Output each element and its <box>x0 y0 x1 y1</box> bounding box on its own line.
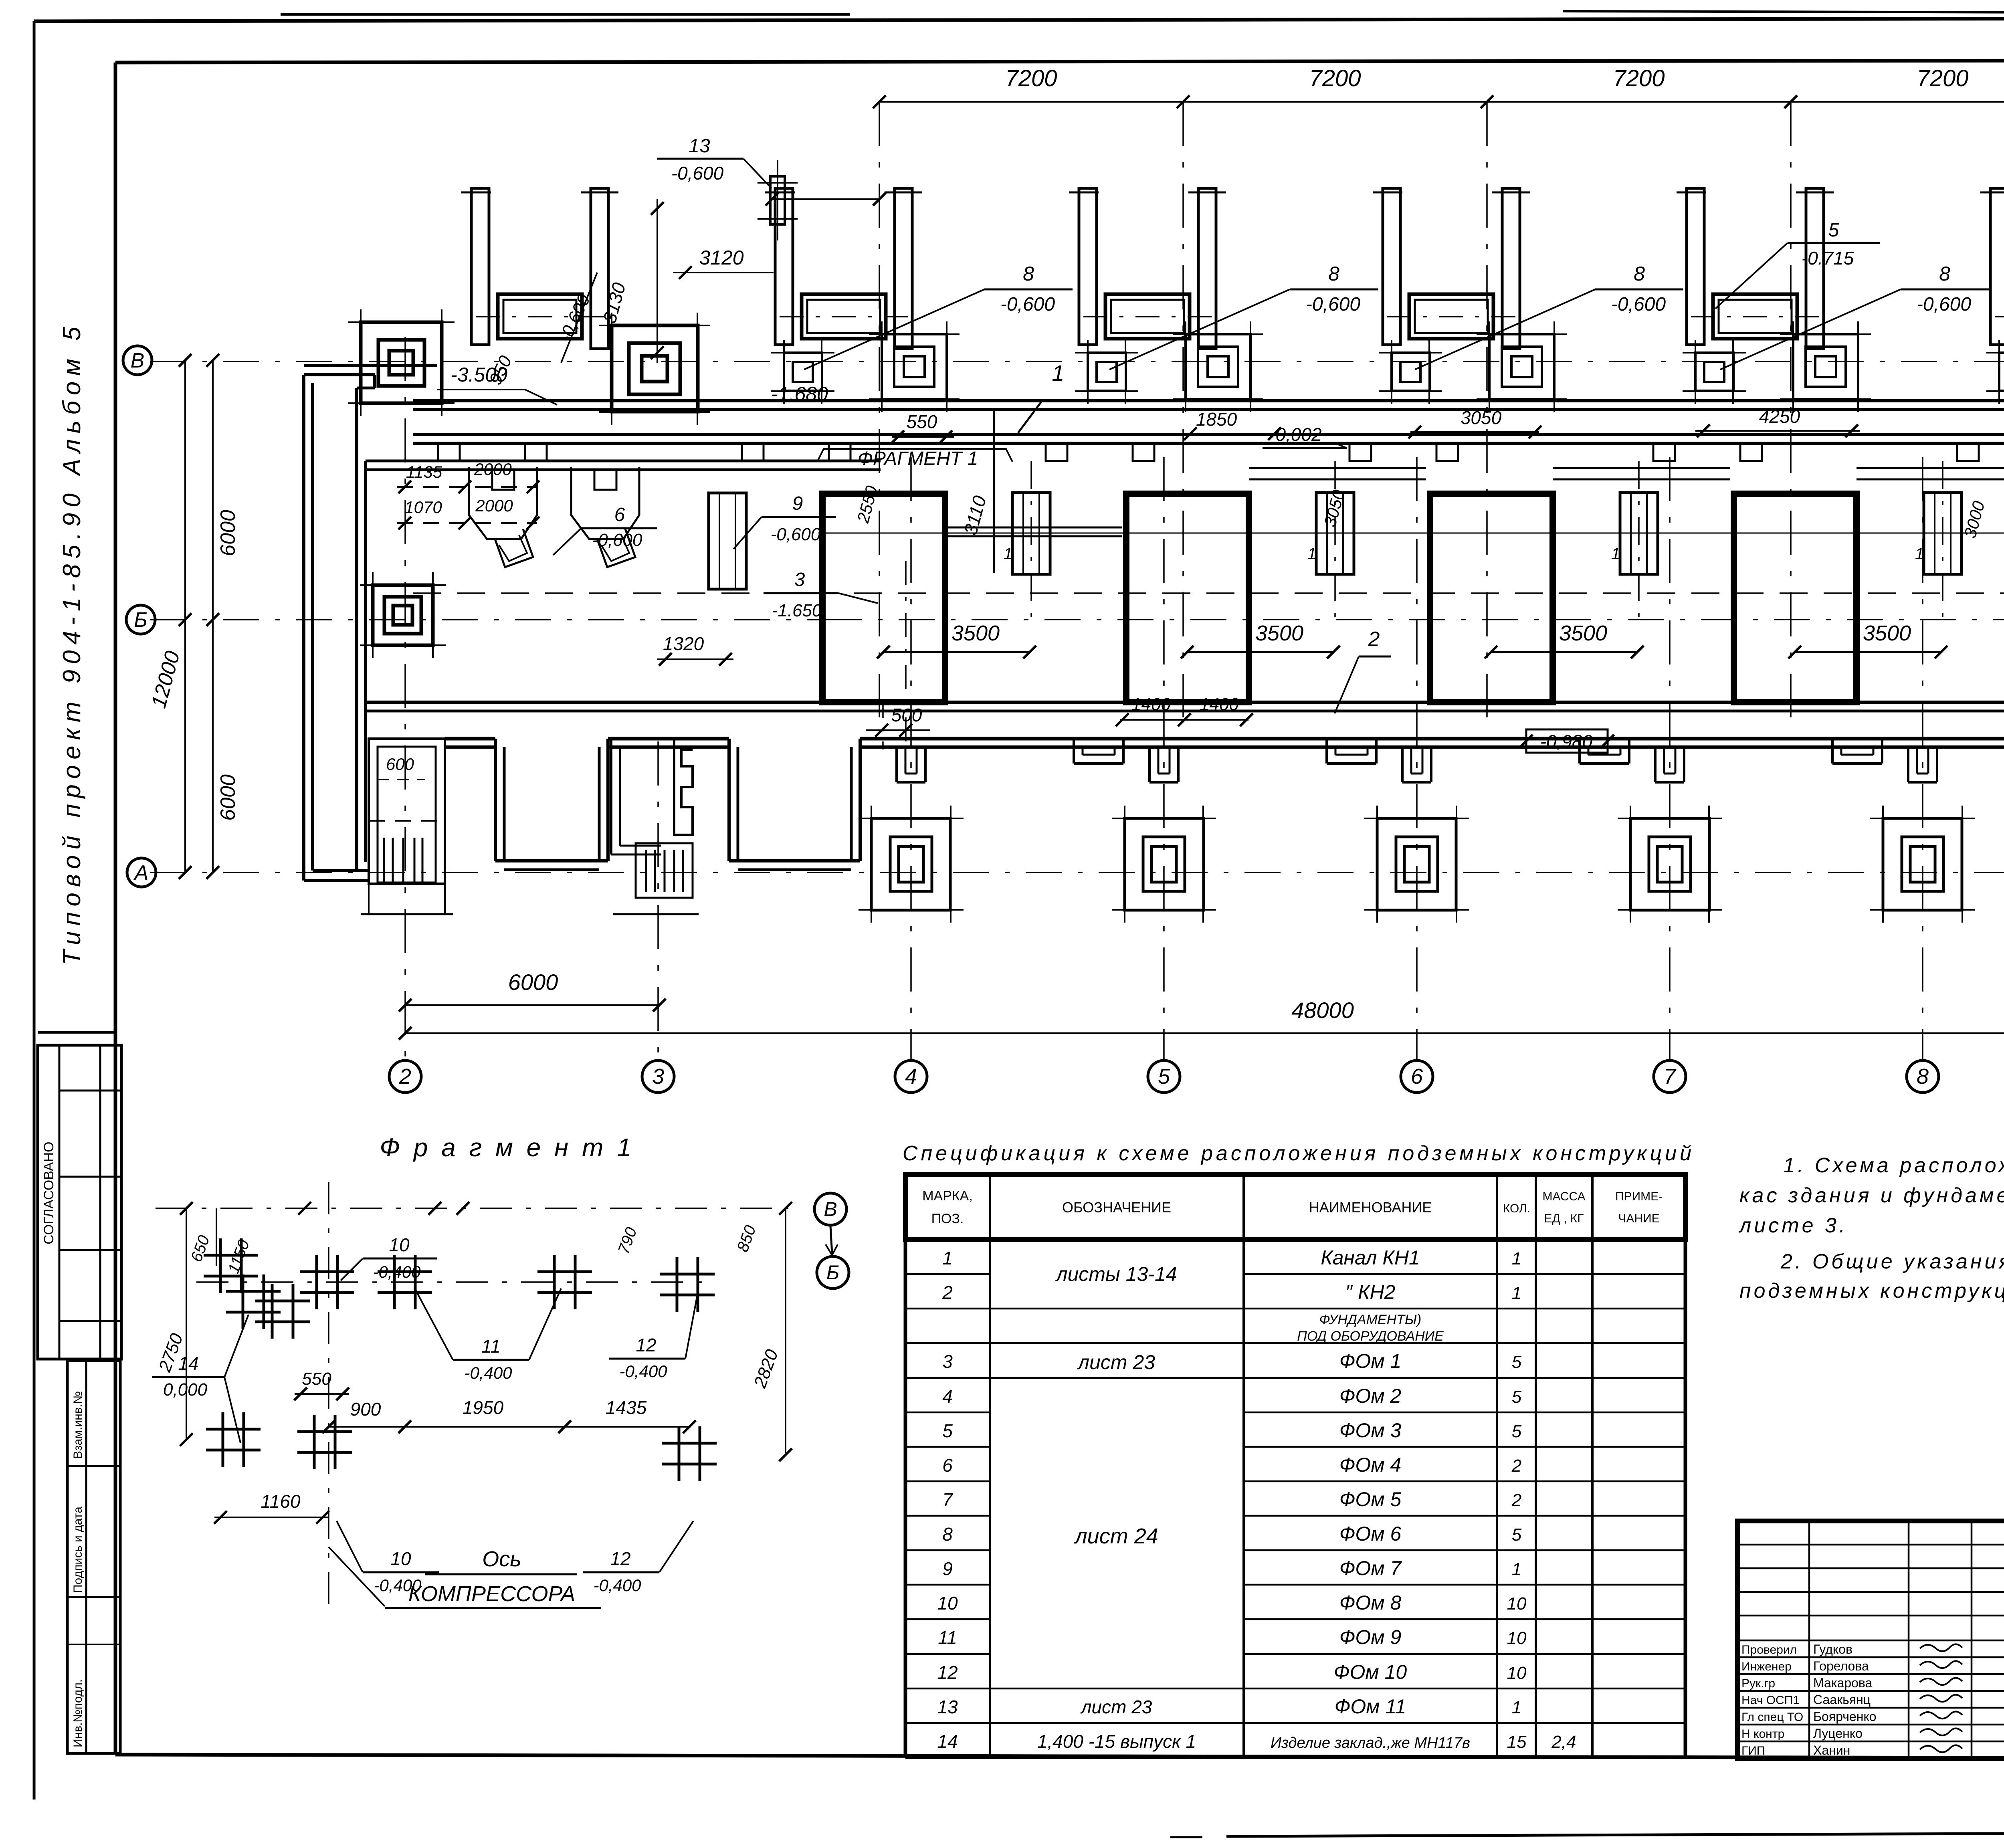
svg-text:ОБОЗНАЧЕНИЕ: ОБОЗНАЧЕНИЕ <box>1062 1199 1171 1216</box>
svg-text:900: 900 <box>350 1399 381 1420</box>
signature table <box>1737 1521 2004 1759</box>
left margin vertical title <box>58 321 86 965</box>
small foundation 13 <box>758 160 798 240</box>
small footing 2003 <box>771 340 834 404</box>
svg-text:7200: 7200 <box>1917 65 1968 91</box>
svg-text:КОЛ.: КОЛ. <box>1503 1202 1530 1215</box>
comb top edge <box>445 739 2004 747</box>
svg-text:-0,400: -0,400 <box>464 1363 512 1382</box>
svg-text:48000: 48000 <box>1291 998 1354 1023</box>
svg-text:3120: 3120 <box>699 246 743 269</box>
hexagonal pits 6 <box>469 467 639 567</box>
svg-text:Ф р а г м е н т 1: Ф р а г м е н т 1 <box>380 1133 634 1162</box>
svg-text:Б: Б <box>826 1261 840 1284</box>
dim 3050 <box>1408 407 1541 438</box>
svg-text:550: 550 <box>907 411 937 432</box>
bottom column bubbles 2..10 <box>389 1060 421 1093</box>
подпись stamp box <box>67 1361 120 1753</box>
fragment left dim chain <box>155 1202 253 1446</box>
notes paragraph 1 <box>1738 1154 2004 1237</box>
seats below channel <box>438 443 2004 461</box>
fragment grid line В <box>156 1202 788 1215</box>
svg-text:ФОм 9: ФОм 9 <box>1339 1626 1402 1648</box>
label 6/-0.600 <box>553 504 657 555</box>
dim 4250 <box>1695 406 1860 437</box>
svg-text:10: 10 <box>937 1593 958 1614</box>
svg-text:0,000: 0,000 <box>163 1380 208 1400</box>
svg-text:11: 11 <box>938 1627 957 1648</box>
svg-text:1950: 1950 <box>463 1397 504 1418</box>
footing В col 3 <box>599 313 710 425</box>
svg-text:ФОм 2: ФОм 2 <box>1339 1385 1402 1407</box>
dims 1070 2000 <box>397 496 539 529</box>
svg-text:9: 9 <box>942 1558 953 1579</box>
svg-text:ФОм 5: ФОм 5 <box>1339 1488 1402 1511</box>
svg-text:1: 1 <box>1307 545 1316 563</box>
svg-text:5: 5 <box>1512 1352 1522 1372</box>
svg-text:ФОм 4: ФОм 4 <box>1339 1454 1402 1476</box>
label 1 with leader <box>1018 360 1065 433</box>
rotated 3110 <box>960 409 994 573</box>
svg-text:8: 8 <box>1939 263 1950 285</box>
svg-text:6000: 6000 <box>216 510 240 556</box>
svg-text:5: 5 <box>1512 1525 1522 1545</box>
svg-text:Горелова: Горелова <box>1813 1659 1869 1673</box>
construction line mid <box>818 533 2004 534</box>
svg-text:5: 5 <box>1512 1387 1522 1407</box>
fragment 1 brace <box>817 448 1012 469</box>
svg-text:5: 5 <box>1828 220 1839 241</box>
svg-text:ГИП: ГИП <box>1741 1744 1765 1757</box>
rotated 950 <box>485 353 516 388</box>
svg-text:3500: 3500 <box>1863 621 1911 645</box>
svg-text:2000: 2000 <box>474 460 512 479</box>
dim 3120 <box>673 193 886 279</box>
svg-text:ПОД ОБОРУДОВАНИЕ: ПОД ОБОРУДОВАНИЕ <box>1297 1329 1444 1344</box>
rotated dim 3050b <box>1320 487 1348 529</box>
svg-text:Б: Б <box>134 608 147 632</box>
svg-text:2: 2 <box>399 1064 411 1089</box>
svg-text:1435: 1435 <box>606 1397 647 1418</box>
svg-text:Саакьянц: Саакьянц <box>1813 1692 1871 1707</box>
svg-text:1,400 -15 выпуск 1: 1,400 -15 выпуск 1 <box>1037 1731 1196 1752</box>
inter-bay pedestal 4 <box>1915 461 1962 617</box>
svg-text:9: 9 <box>792 493 803 514</box>
svg-text:-0,400: -0,400 <box>619 1362 667 1381</box>
grid bubble А <box>127 858 156 887</box>
svg-text:3: 3 <box>942 1351 953 1372</box>
svg-text:ФОм 1: ФОм 1 <box>1339 1350 1402 1372</box>
fragment label 12/-0.400 bottom <box>583 1521 693 1595</box>
page outer border bottom right <box>1170 1832 2004 1837</box>
svg-text:12: 12 <box>636 1335 656 1355</box>
svg-text:Ханин: Ханин <box>1813 1743 1850 1757</box>
svg-text:″ КН2: ″ КН2 <box>1345 1281 1396 1303</box>
svg-text:600: 600 <box>386 755 414 774</box>
svg-text:листы 13-14: листы 13-14 <box>1055 1263 1177 1285</box>
svg-text:10: 10 <box>390 1548 411 1569</box>
footing А col 4 <box>859 806 964 923</box>
dim 500 <box>866 561 930 749</box>
svg-text:ЧАНИЕ: ЧАНИЕ <box>1618 1212 1659 1225</box>
svg-text:1070: 1070 <box>404 498 442 517</box>
inter-bay pedestal 1 <box>1004 461 1050 617</box>
fragment bubble В <box>814 1193 846 1225</box>
left wall top connection <box>304 366 437 388</box>
equipment foundation 3 <box>1083 294 1212 339</box>
svg-text:-0.715: -0.715 <box>1802 248 1854 269</box>
svg-text:13: 13 <box>689 135 710 157</box>
svg-text:1. Схема расположения фундам: 1. Схема расположения фундаментов под ка… <box>1783 1154 2004 1177</box>
svg-text:Гл спец ТО: Гл спец ТО <box>1741 1711 1803 1724</box>
svg-text:ФОм 10: ФОм 10 <box>1334 1661 1407 1683</box>
equipment block big rect 3 <box>1430 494 1553 702</box>
svg-text:ФОм 11: ФОм 11 <box>1335 1695 1406 1718</box>
pylon pair 5 <box>1677 188 1834 349</box>
svg-text:1: 1 <box>1004 545 1012 563</box>
seats under КН2 top <box>492 470 616 490</box>
pylon pair 4 <box>1373 188 1530 349</box>
labels 8/-0.600 <box>804 263 1073 370</box>
svg-text:Канал КН1: Канал КН1 <box>1321 1246 1420 1269</box>
construction line mid2 <box>413 592 2004 594</box>
svg-text:ФОм 3: ФОм 3 <box>1339 1419 1402 1442</box>
equipment block big rect 2 <box>1126 494 1249 702</box>
dim 600 left comb <box>402 736 403 737</box>
svg-text:1160: 1160 <box>261 1491 301 1512</box>
svg-text:Макарова: Макарова <box>1813 1676 1873 1690</box>
svg-text:Луценко: Луценко <box>1813 1726 1863 1741</box>
svg-text:2: 2 <box>942 1282 953 1303</box>
svg-text:10: 10 <box>389 1234 410 1255</box>
label 0.002 <box>1263 424 1347 448</box>
equipment foundation 1 <box>476 294 604 339</box>
tooth col 5 <box>1149 747 1178 782</box>
page outer border left <box>33 21 36 1800</box>
pedestal before first block <box>709 493 746 589</box>
tooth col 4 <box>897 747 925 782</box>
equipment block big rect 4 <box>1734 494 1857 702</box>
fragment label 10/-0.400 bottom <box>337 1521 439 1595</box>
svg-text:кас здания и фундаментных б: кас здания и фундаментных балок дана на <box>1739 1184 2004 1207</box>
svg-text:Инженер: Инженер <box>1741 1660 1792 1673</box>
svg-text:3500: 3500 <box>1559 621 1607 645</box>
svg-text:5: 5 <box>1512 1422 1522 1441</box>
grid line А <box>150 872 2004 873</box>
svg-text:2: 2 <box>1511 1491 1521 1510</box>
svg-text:3050: 3050 <box>1461 407 1502 428</box>
dims 1135 2000 <box>397 460 539 493</box>
deep U 1236 <box>495 739 608 870</box>
svg-text:10: 10 <box>1507 1663 1527 1683</box>
svg-text:Инв.№подл.: Инв.№подл. <box>71 1679 85 1747</box>
svg-text:-0,980: -0,980 <box>1540 731 1593 752</box>
left dimension chain 6000 6000 12000 <box>147 354 240 879</box>
svg-text:2,4: 2,4 <box>1551 1732 1576 1752</box>
согласовано stamp box <box>38 1032 121 1359</box>
upper column centerlines 7200 grid <box>879 102 2004 717</box>
grid bubble Б <box>126 605 155 634</box>
footing В bay 5 <box>1780 321 1871 412</box>
column centerlines 2..10 <box>405 337 2004 1061</box>
dim 1850 <box>1183 409 1281 440</box>
svg-text:3500: 3500 <box>951 621 1000 645</box>
svg-text:ФОм 7: ФОм 7 <box>1339 1557 1402 1579</box>
svg-text:Изделие заклад.,же МН117в: Изделие заклад.,же МН117в <box>1271 1735 1470 1751</box>
svg-text:12: 12 <box>937 1662 958 1683</box>
label 2 with leader <box>1335 628 1391 713</box>
rotated dim 3000 mid <box>1960 499 1988 540</box>
svg-text:Рук.гр: Рук.гр <box>1741 1677 1775 1690</box>
svg-text:8: 8 <box>1634 263 1645 285</box>
bottom dimension 48000 <box>399 998 2004 1040</box>
svg-text:5: 5 <box>942 1420 953 1441</box>
svg-text:7: 7 <box>942 1489 953 1510</box>
svg-text:7: 7 <box>1664 1064 1677 1089</box>
svg-text:10: 10 <box>1507 1628 1527 1648</box>
rotated dim 3130 <box>599 199 664 363</box>
svg-text:ФОм 8: ФОм 8 <box>1339 1592 1402 1614</box>
channel link lines bay 2 <box>1249 468 1426 479</box>
svg-text:Нач ОСП1: Нач ОСП1 <box>1741 1694 1800 1707</box>
svg-text:8: 8 <box>1023 263 1034 285</box>
pylon pair 6 <box>1980 188 2004 349</box>
fragment label 10/-0.400 top <box>341 1234 437 1281</box>
svg-text:4250: 4250 <box>1759 406 1800 427</box>
footing А col 5 <box>1112 806 1216 923</box>
svg-text:лист 23: лист 23 <box>1077 1351 1155 1373</box>
equipment block big rect 1 <box>822 494 945 702</box>
svg-text:11: 11 <box>481 1336 501 1357</box>
page outer border top <box>34 11 2004 21</box>
svg-text:лист 24: лист 24 <box>1074 1524 1158 1548</box>
svg-text:Спецификация к схеме распол: Спецификация к схеме расположения подзем… <box>903 1142 1695 1165</box>
equipment foundation 5 <box>1691 294 1819 339</box>
tooth col 6 <box>1402 747 1431 782</box>
svg-text:10: 10 <box>1507 1594 1527 1614</box>
svg-text:2. Общие указания к схеме: 2. Общие указания к схеме расположения <box>1780 1250 2004 1273</box>
small footing 4277 <box>1683 340 1746 404</box>
fragment label 11/-0.400 <box>415 1289 561 1382</box>
svg-text:3: 3 <box>652 1064 664 1089</box>
svg-text:550: 550 <box>302 1369 331 1389</box>
specification row lines <box>905 1274 1685 1723</box>
svg-text:13: 13 <box>937 1697 958 1717</box>
svg-text:1: 1 <box>1512 1559 1521 1579</box>
svg-text:0,002: 0,002 <box>1275 424 1321 445</box>
specification title <box>903 1142 1695 1165</box>
deep U 1819 <box>729 739 860 870</box>
svg-text:НАИМЕНОВАНИЕ: НАИМЕНОВАНИЕ <box>1309 1199 1432 1216</box>
svg-text:ФУНДАМЕНТЫ): ФУНДАМЕНТЫ) <box>1319 1312 1422 1327</box>
equipment foundation 6 <box>1995 294 2004 339</box>
dim 1320 <box>657 633 733 666</box>
svg-text:В: В <box>131 349 145 372</box>
svg-text:6: 6 <box>1411 1064 1423 1089</box>
inter-bay pedestal 3 <box>1611 461 1658 617</box>
svg-text:-0,400: -0,400 <box>373 1262 421 1281</box>
notch left of col 5 <box>1074 739 1123 763</box>
svg-text:6000: 6000 <box>216 774 240 821</box>
svg-text:1: 1 <box>1611 545 1620 563</box>
dim labels 3500 <box>877 621 2004 658</box>
specification header texts <box>922 1188 1663 1226</box>
svg-text:3500: 3500 <box>1255 621 1303 645</box>
svg-text:-0,400: -0,400 <box>593 1576 641 1595</box>
pylon pair 1 <box>461 188 618 349</box>
fragment axis vertical <box>328 1182 329 1607</box>
svg-text:1: 1 <box>1512 1698 1521 1717</box>
fragment axis horizontal <box>196 1281 713 1283</box>
svg-text:-0,600: -0,600 <box>671 163 724 184</box>
rotated -0.600 note <box>555 273 597 363</box>
svg-text:МАССА: МАССА <box>1542 1190 1585 1203</box>
svg-text:15: 15 <box>1507 1732 1527 1752</box>
svg-text:Подпись и дата: Подпись и дата <box>71 1507 85 1593</box>
channel link lines bay 1 <box>945 527 1122 536</box>
svg-text:8: 8 <box>1328 263 1339 285</box>
svg-text:1: 1 <box>942 1248 953 1268</box>
svg-text:Взам.инв.№: Взам.инв.№ <box>71 1391 85 1459</box>
svg-text:Боярченко: Боярченко <box>1813 1709 1877 1724</box>
channel КН1 bottom edge <box>413 434 2004 443</box>
fragment 1 title <box>380 1133 634 1162</box>
footing В col 2 <box>348 309 455 416</box>
dim 550 <box>891 411 954 443</box>
svg-text:А: А <box>133 861 149 885</box>
svg-text:14: 14 <box>178 1353 198 1374</box>
svg-text:2: 2 <box>1511 1456 1521 1476</box>
notes paragraph 2 <box>1739 1250 2004 1303</box>
grid bubble В <box>123 346 152 375</box>
svg-text:8: 8 <box>1917 1064 1929 1089</box>
label 13/-0.600 <box>657 135 772 188</box>
svg-text:ЕД , КГ: ЕД , КГ <box>1544 1212 1584 1225</box>
fragment dims 900 1950 1435 <box>322 1397 696 1433</box>
svg-text:4: 4 <box>942 1386 953 1407</box>
svg-text:6: 6 <box>614 504 625 525</box>
top dimension line 7200 x4 <box>873 65 2004 108</box>
col3 comb elements <box>611 739 699 914</box>
channel link lines bay 3 <box>1553 468 1730 479</box>
svg-text:7200: 7200 <box>1309 65 1361 91</box>
left inner wall <box>357 388 366 870</box>
bottom dimension 6000 left <box>399 969 666 1012</box>
svg-text:1400: 1400 <box>1200 695 1239 714</box>
channel КН1 top edge <box>413 401 2004 410</box>
small footing 5035 <box>1986 340 2004 404</box>
footing В bay 3 <box>1173 321 1263 412</box>
channel КН2 bottom line <box>366 702 2004 711</box>
title block frame <box>1737 1521 2004 1759</box>
footing Б col 2 <box>360 572 446 658</box>
rotated dim 2550 <box>853 483 881 525</box>
svg-text:МАРКА,: МАРКА, <box>922 1188 973 1204</box>
col2 comb box <box>361 739 453 914</box>
inter-bay pedestal 2 <box>1307 461 1354 617</box>
footing А col 6 <box>1364 806 1469 923</box>
svg-text:500: 500 <box>891 705 922 725</box>
svg-text:ПОЗ.: ПОЗ. <box>931 1211 964 1226</box>
grid line В <box>150 361 2004 362</box>
channel link lines bay 4 <box>1857 468 2004 479</box>
fragment right dim chain <box>615 1202 792 1461</box>
svg-text:-0,600: -0,600 <box>771 525 821 544</box>
svg-text:ПРИМЕ-: ПРИМЕ- <box>1615 1190 1663 1203</box>
svg-text:Типовой проект 904-1-85.90: Типовой проект 904-1-85.90 Альбом 5 <box>58 321 86 965</box>
svg-text:5: 5 <box>1158 1064 1170 1089</box>
small footing 2761 <box>1075 340 1138 404</box>
small footing 3519 <box>1379 340 1442 404</box>
tooth col 8 <box>1908 747 1937 782</box>
label 3/-1.650 <box>764 569 878 620</box>
fragment label 12/-0.400 <box>609 1295 697 1381</box>
svg-text:6000: 6000 <box>508 969 558 995</box>
svg-text:подземных конструкций даны: подземных конструкций даны на листе 1 <box>1739 1279 2004 1303</box>
svg-text:КОМПРЕССОРА: КОМПРЕССОРА <box>408 1582 576 1606</box>
svg-text:В: В <box>824 1198 837 1220</box>
svg-text:-0,600: -0,600 <box>1000 294 1055 315</box>
svg-text:1850: 1850 <box>1196 409 1237 430</box>
pylon pair 2 <box>765 188 922 349</box>
svg-text:1: 1 <box>1512 1283 1521 1303</box>
label 9/-0.600 <box>733 493 836 549</box>
dims 1400 1400 <box>1116 695 1253 726</box>
svg-text:1: 1 <box>1052 360 1064 386</box>
svg-text:1: 1 <box>1915 545 1924 563</box>
svg-text:2000: 2000 <box>475 496 513 515</box>
specification table frame <box>905 1175 1685 1757</box>
svg-text:лист 23: лист 23 <box>1080 1697 1152 1717</box>
svg-text:СОГЛАСОВАНО: СОГЛАСОВАНО <box>41 1142 57 1244</box>
svg-text:Ось: Ось <box>482 1547 521 1571</box>
footing В bay 4 <box>1477 321 1567 412</box>
svg-text:Гудков: Гудков <box>1813 1642 1852 1656</box>
left wall bottom connection <box>304 870 369 881</box>
svg-text:-1.650: -1.650 <box>772 601 822 620</box>
svg-text:-1.680: -1.680 <box>771 383 828 405</box>
svg-text:1135: 1135 <box>406 463 442 481</box>
tooth col 7 <box>1655 747 1684 782</box>
channel КН2 upper line left section <box>366 461 881 470</box>
grid line Б <box>150 619 2004 620</box>
fragment dim 550 <box>294 1369 349 1400</box>
svg-text:Проверил: Проверил <box>1741 1643 1797 1656</box>
svg-text:-0,600: -0,600 <box>1611 294 1666 315</box>
svg-text:1: 1 <box>1512 1249 1521 1268</box>
label -1.680 <box>758 383 842 410</box>
footing В bay 2 <box>869 321 960 412</box>
fragment cross anchors row 2 <box>206 1412 261 1467</box>
svg-text:2: 2 <box>1368 628 1380 651</box>
svg-text:1320: 1320 <box>663 633 704 654</box>
notch left of col 8 <box>1832 739 1882 763</box>
pylon pair 3 <box>1069 188 1226 349</box>
svg-text:3: 3 <box>794 569 805 590</box>
svg-text:1400: 1400 <box>1131 695 1171 714</box>
label -3.500 <box>437 364 557 405</box>
svg-text:-0,600: -0,600 <box>1917 294 1971 315</box>
svg-text:-0,600: -0,600 <box>1306 294 1360 315</box>
fragment arrow В-Б <box>826 1226 838 1255</box>
equipment foundation 4 <box>1387 294 1515 339</box>
equipment foundation 2 <box>780 294 908 339</box>
fragment bubble Б <box>817 1256 849 1289</box>
fragment label 14/0.000 <box>152 1315 248 1443</box>
fragment cross anchors row 1 <box>204 1238 258 1293</box>
svg-text:12: 12 <box>610 1548 630 1569</box>
fragment dim 1160 <box>214 1491 329 1524</box>
